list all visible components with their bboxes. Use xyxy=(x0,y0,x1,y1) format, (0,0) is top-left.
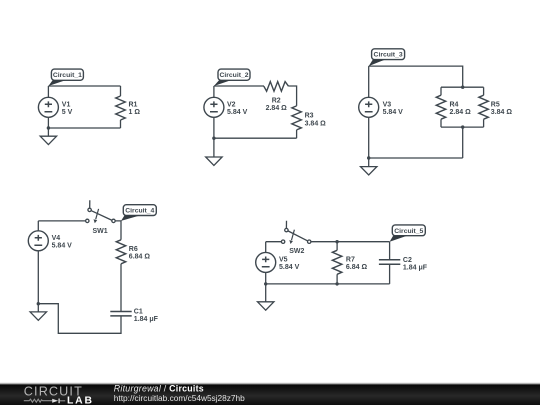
voltage source V2 xyxy=(204,97,248,117)
svg-text:1.84 μF: 1.84 μF xyxy=(403,265,428,272)
svg-text:5.84 V: 5.84 V xyxy=(227,109,248,116)
svg-text:V3: V3 xyxy=(383,101,392,108)
svg-text:V2: V2 xyxy=(227,101,236,108)
svg-text:2.84 Ω: 2.84 Ω xyxy=(450,109,472,116)
resistor R6 xyxy=(116,240,150,264)
svg-text:R2: R2 xyxy=(272,98,281,105)
svg-text:1.84 μF: 1.84 μF xyxy=(134,316,159,323)
node dot R7 top xyxy=(335,240,338,243)
svg-text:SW1: SW1 xyxy=(93,228,108,235)
wire R3 bottom stub xyxy=(296,130,298,138)
wire V5 bottom stub xyxy=(265,272,267,284)
wire bottom C5 xyxy=(266,283,390,285)
wire R4 stubs xyxy=(440,87,442,127)
svg-text:R5: R5 xyxy=(491,101,500,108)
ground circuit1 xyxy=(40,128,56,145)
node dot circuit3 ground junction xyxy=(367,156,370,159)
label Circuit_3 xyxy=(369,49,405,66)
svg-text:Circuit_2: Circuit_2 xyxy=(219,72,248,79)
label Circuit_1 xyxy=(48,69,83,86)
wire R5 stubs xyxy=(483,87,485,127)
wire R1 stubs xyxy=(120,86,122,128)
wire V4 top stub xyxy=(37,221,39,231)
wire V4 to SW1 xyxy=(38,220,85,222)
ground circuit4 xyxy=(30,304,46,321)
svg-text:R3: R3 xyxy=(305,113,314,120)
svg-text:http://circuitlab.com/c54w5sj2: http://circuitlab.com/c54w5sj28z7hb xyxy=(114,393,245,403)
footer title text xyxy=(114,383,204,393)
svg-text:Circuit_4: Circuit_4 xyxy=(125,208,154,215)
voltage source V1 xyxy=(38,97,72,117)
wire parallel bottom bar xyxy=(441,126,484,128)
wire V1 bottom stub xyxy=(47,117,49,128)
voltage source V5 xyxy=(256,252,300,272)
svg-text:3.84 Ω: 3.84 Ω xyxy=(491,109,513,116)
svg-text:1 Ω: 1 Ω xyxy=(129,109,141,116)
wire top C1: node A to R1 top xyxy=(48,85,120,87)
svg-text:V1: V1 xyxy=(62,101,71,108)
wire V2 top stub xyxy=(213,86,215,97)
svg-text:R7: R7 xyxy=(346,257,355,264)
wire top C3 xyxy=(369,66,463,87)
wire SW1 to corner, down to R6 xyxy=(115,221,121,240)
svg-text:2.84 Ω: 2.84 Ω xyxy=(266,105,288,112)
logo resistor-diode glyph xyxy=(24,399,65,404)
switch SW1 xyxy=(86,200,116,235)
wire R7 bottom stub xyxy=(336,274,338,284)
resistor R3 xyxy=(292,106,326,130)
svg-text:5.84 V: 5.84 V xyxy=(52,243,73,250)
wire V3 top stub xyxy=(368,66,370,97)
svg-text:V5: V5 xyxy=(279,256,288,263)
svg-text:C1: C1 xyxy=(134,309,143,316)
wire V3 bottom stub xyxy=(368,117,370,158)
node dot circuit2 ground junction xyxy=(212,137,215,140)
voltage source V3 xyxy=(359,97,403,117)
svg-text:V4: V4 xyxy=(52,235,61,242)
svg-text:LAB: LAB xyxy=(67,395,94,405)
resistor R2 (horizontal) xyxy=(264,82,289,113)
resistor R1 xyxy=(116,96,141,120)
wire V4 bottom stub xyxy=(37,251,39,304)
node dot R7 bottom xyxy=(335,282,338,285)
footer url text xyxy=(114,393,245,403)
capacitor C1 xyxy=(110,309,158,324)
logo LAB text xyxy=(67,395,94,405)
wire top C2 right: R2 to corner, down to R3 xyxy=(289,86,297,106)
svg-text:5.84 V: 5.84 V xyxy=(383,109,404,116)
wire V1 top stub xyxy=(47,86,49,97)
capacitor C2 xyxy=(379,257,428,272)
svg-text:R4: R4 xyxy=(450,101,459,108)
wire V2 bottom stub xyxy=(213,117,215,138)
svg-text:R6: R6 xyxy=(129,246,138,253)
resistor R5 xyxy=(479,95,513,119)
svg-text:3.84 Ω: 3.84 Ω xyxy=(305,120,327,127)
wire bottom C3 xyxy=(369,157,463,159)
footer bar xyxy=(0,383,540,405)
node dot parallel bottom xyxy=(461,125,464,128)
wire bottom C2 xyxy=(214,137,297,139)
wire C2 bottom stub xyxy=(389,264,391,284)
wire bottom C1 xyxy=(48,127,120,129)
node dot circuit5 ground junction xyxy=(264,282,267,285)
ground circuit2 xyxy=(206,138,222,165)
label Circuit_4 xyxy=(121,205,156,221)
svg-text:Riturgrewal / Circuits: Riturgrewal / Circuits xyxy=(114,383,204,393)
wire C1 bottom to corner xyxy=(38,304,121,334)
ground circuit5 xyxy=(258,284,274,310)
resistor R4 xyxy=(436,95,471,119)
wire parallel top bar xyxy=(441,86,484,88)
node dot parallel top xyxy=(461,86,464,89)
node dot circuit4 ground junction xyxy=(37,302,40,305)
svg-text:Circuit_3: Circuit_3 xyxy=(374,52,403,59)
wire C2 top stub xyxy=(389,242,391,260)
svg-text:R1: R1 xyxy=(129,101,138,108)
svg-text:Circuit_5: Circuit_5 xyxy=(394,228,423,235)
label Circuit_2 xyxy=(214,69,250,86)
wire R7 top stub xyxy=(336,242,338,251)
svg-text:5 V: 5 V xyxy=(62,109,73,116)
resistor R7 xyxy=(332,250,367,274)
wire SW2 to C2 top xyxy=(311,241,390,243)
logo CIRCUIT text xyxy=(24,384,83,398)
svg-text:C2: C2 xyxy=(403,257,412,264)
svg-text:6.84 Ω: 6.84 Ω xyxy=(346,264,368,271)
svg-text:6.84 Ω: 6.84 Ω xyxy=(129,254,151,261)
svg-text:SW2: SW2 xyxy=(289,248,304,255)
voltage source V4 xyxy=(28,231,72,251)
wire down from parallel to bottom xyxy=(462,127,464,158)
wire V5 to SW2 xyxy=(266,242,282,253)
wire top C2 left: node to R2 xyxy=(214,85,264,87)
ground circuit3 xyxy=(361,158,377,175)
switch SW2 xyxy=(281,221,311,255)
svg-text:Circuit_1: Circuit_1 xyxy=(53,72,82,79)
svg-text:5.84 V: 5.84 V xyxy=(279,264,300,271)
label Circuit_5 xyxy=(390,225,426,242)
node dot circuit1 ground junction xyxy=(47,126,50,129)
wire R6 to C1 xyxy=(120,264,122,312)
